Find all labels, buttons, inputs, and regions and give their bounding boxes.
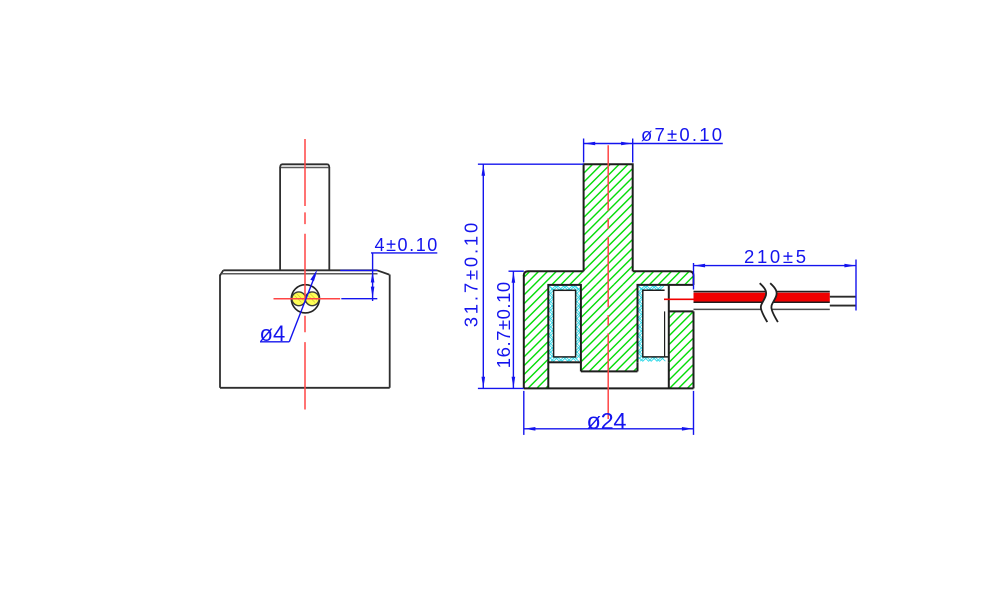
svg-text:4±0.10: 4±0.10 xyxy=(375,235,438,255)
svg-text:ø4: ø4 xyxy=(260,321,286,346)
svg-text:16.7±0.10: 16.7±0.10 xyxy=(493,282,514,368)
svg-text:ø24: ø24 xyxy=(587,408,627,434)
svg-text:31.7±0.10: 31.7±0.10 xyxy=(461,223,482,328)
svg-text:210±5: 210±5 xyxy=(744,246,806,267)
